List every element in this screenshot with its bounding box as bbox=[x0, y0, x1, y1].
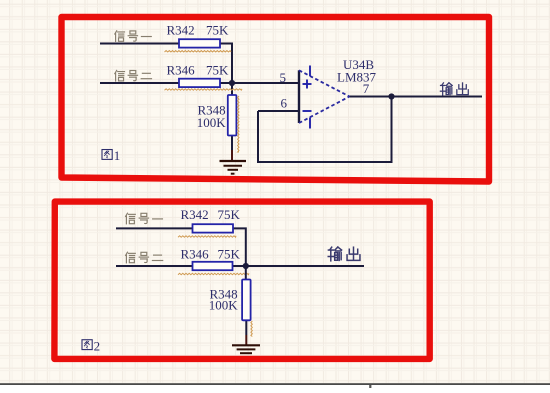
svg-text:R346: R346 bbox=[167, 62, 196, 77]
svg-text:75K: 75K bbox=[206, 23, 229, 38]
svg-text:6: 6 bbox=[281, 95, 288, 110]
svg-text:100K: 100K bbox=[197, 115, 227, 130]
svg-text:R346: R346 bbox=[181, 247, 210, 262]
svg-text:LM837: LM837 bbox=[337, 70, 377, 85]
svg-text:100K: 100K bbox=[209, 298, 239, 313]
svg-text:2: 2 bbox=[94, 338, 101, 353]
svg-text:R342: R342 bbox=[167, 23, 195, 38]
svg-text:75K: 75K bbox=[206, 62, 229, 77]
svg-text:1: 1 bbox=[114, 148, 121, 163]
svg-text:R342: R342 bbox=[181, 207, 209, 222]
svg-text:5: 5 bbox=[280, 70, 287, 85]
svg-text:75K: 75K bbox=[218, 247, 241, 262]
svg-text:75K: 75K bbox=[218, 207, 241, 222]
